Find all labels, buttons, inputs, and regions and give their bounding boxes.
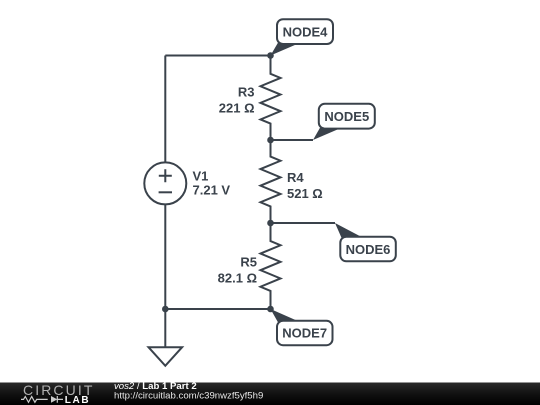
wire top horizontal from V1 column to NODE4 junction xyxy=(165,55,270,57)
wire NODE6 stub xyxy=(271,222,336,224)
resistor R4 xyxy=(261,140,281,223)
svg-text:LAB: LAB xyxy=(65,395,90,405)
svg-text:521 Ω: 521 Ω xyxy=(287,186,323,201)
junction dot NODE5 xyxy=(267,137,274,144)
CircuitLab logo diode xyxy=(51,396,57,403)
wire bottom horizontal xyxy=(165,308,270,310)
junction dot NODE7 xyxy=(267,306,274,313)
svg-text:221 Ω: 221 Ω xyxy=(219,101,255,116)
voltage source V1 circle xyxy=(144,162,186,204)
node flag NODE6 xyxy=(335,223,396,261)
junction dot NODE6 xyxy=(267,220,274,227)
svg-text:NODE6: NODE6 xyxy=(346,242,391,257)
CircuitLab logo resistor zigzag xyxy=(21,397,48,403)
svg-text:NODE7: NODE7 xyxy=(282,326,327,341)
ground symbol triangle xyxy=(149,347,183,366)
svg-text:7.21 V: 7.21 V xyxy=(193,182,231,197)
svg-text:http://circuitlab.com/c39nwzf5: http://circuitlab.com/c39nwzf5yf5h9 xyxy=(114,390,263,401)
junction dot ground tee xyxy=(162,306,169,313)
svg-text:R3: R3 xyxy=(238,84,255,99)
wire left rail lower (V1 minus terminal down to bottom wire) xyxy=(164,204,166,309)
svg-text:R5: R5 xyxy=(240,254,257,269)
resistor R3 xyxy=(261,56,281,141)
wire NODE5 stub xyxy=(271,139,314,141)
footer black bar xyxy=(0,383,540,405)
resistor R5 xyxy=(261,223,281,309)
node flag NODE7 xyxy=(271,309,333,345)
node flag NODE5 xyxy=(313,104,375,140)
svg-text:R4: R4 xyxy=(287,170,304,185)
junction dot NODE4 xyxy=(267,52,274,59)
svg-text:NODE5: NODE5 xyxy=(324,109,369,124)
V1 plus symbol xyxy=(159,169,172,182)
V1 minus symbol xyxy=(159,191,172,193)
node flag NODE4 xyxy=(271,19,334,55)
svg-text:82.1 Ω: 82.1 Ω xyxy=(218,271,257,286)
wire ground stub xyxy=(164,309,166,347)
svg-text:NODE4: NODE4 xyxy=(283,24,329,39)
wire left rail upper (top corner down to V1 plus terminal) xyxy=(164,56,166,163)
